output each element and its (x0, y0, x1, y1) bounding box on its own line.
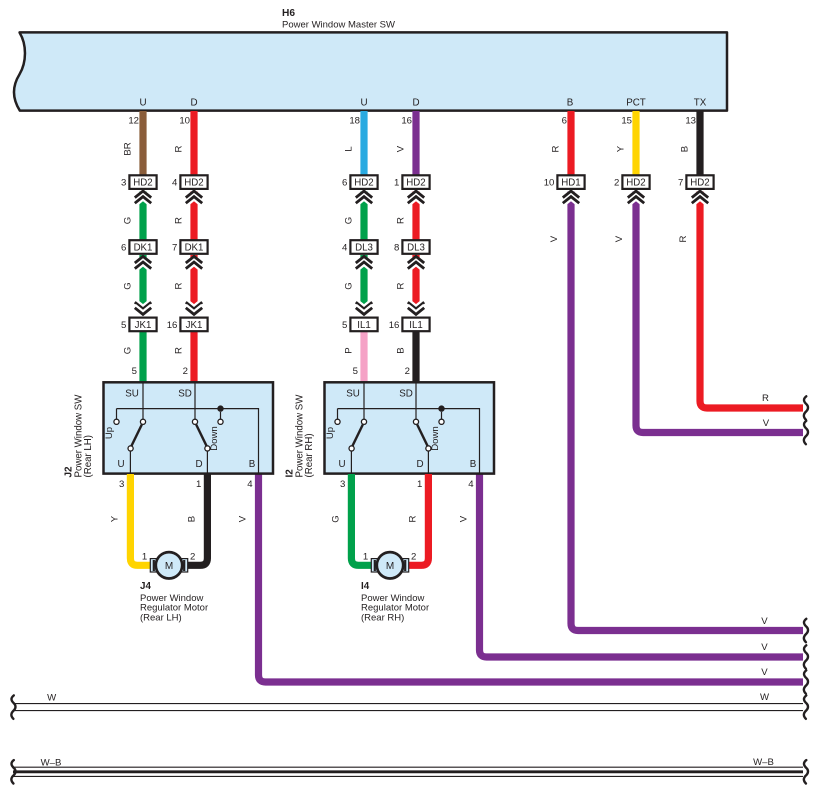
wire B switch D terminal to motor pin 2 (184, 474, 207, 565)
svg-text:D: D (195, 459, 202, 470)
svg-text:I4: I4 (361, 581, 370, 592)
svg-text:4: 4 (247, 479, 253, 490)
wire break symbol (804, 619, 808, 642)
connector mating chevrons (up) (356, 194, 372, 201)
wire break symbol (804, 396, 808, 419)
switch contact (114, 419, 119, 424)
svg-text:U: U (139, 98, 146, 109)
svg-text:SD: SD (178, 389, 192, 400)
wire R connector HD2-1 to DL3-8 (412, 192, 419, 246)
connector HD1 pin 10 (557, 175, 584, 189)
svg-text:2: 2 (190, 552, 195, 563)
svg-text:5: 5 (353, 366, 358, 377)
wire Y from H6 pin 15 to connector HD2 (632, 111, 639, 177)
wire break symbol right (804, 695, 808, 718)
svg-text:P: P (344, 347, 355, 353)
svg-text:DK1: DK1 (134, 243, 153, 254)
svg-text:B: B (396, 347, 407, 353)
svg-text:8: 8 (394, 243, 399, 254)
wire SD lead inside switch (194, 383, 196, 419)
connector mating chevrons (up) (356, 259, 372, 266)
svg-text:HD2: HD2 (184, 178, 203, 189)
svg-text:6: 6 (342, 178, 347, 189)
junction dot on rail (217, 405, 223, 411)
svg-text:Power Window Master SW: Power Window Master SW (282, 19, 395, 30)
switch contact (140, 419, 145, 424)
svg-text:R: R (174, 347, 185, 354)
wire break symbol left (11, 695, 15, 718)
svg-text:B: B (680, 146, 691, 152)
svg-text:G: G (123, 217, 134, 224)
svg-text:R: R (407, 515, 418, 522)
svg-text:V: V (761, 616, 768, 627)
svg-text:HD2: HD2 (626, 178, 645, 189)
svg-text:7: 7 (172, 243, 177, 254)
svg-text:SU: SU (346, 389, 360, 400)
connector HD2 pin 2 (622, 175, 649, 189)
connector mating chevrons (up) (135, 194, 151, 201)
svg-text:JK1: JK1 (135, 320, 152, 331)
wire G between connectors row2 and row3 (139, 255, 146, 313)
power window regulator motor J4 (Rear LH) (150, 559, 157, 572)
svg-text:B: B (567, 98, 574, 109)
svg-text:W–B: W–B (753, 757, 774, 768)
wire R from connector row3 to switch terminal 2 (190, 332, 197, 384)
switch arm Down (196, 425, 206, 446)
svg-text:6: 6 (121, 243, 126, 254)
connector mating chevrons (up) (186, 259, 202, 266)
svg-text:D: D (412, 98, 419, 109)
svg-text:IL1: IL1 (357, 320, 370, 331)
svg-text:J4: J4 (140, 581, 151, 592)
connector HD2 pin 1 (402, 175, 429, 189)
svg-text:16: 16 (389, 320, 400, 331)
switch contact (361, 419, 366, 424)
connector mating chevrons (up) (628, 194, 644, 201)
stub wire to Up contact (337, 409, 339, 420)
switch contact (439, 419, 444, 424)
svg-text:R: R (678, 235, 689, 242)
svg-text:R: R (551, 145, 562, 152)
junction dot on rail (438, 405, 444, 411)
svg-text:B: B (186, 516, 197, 522)
connector JK1 pin 16 (180, 318, 207, 332)
switch pole contact U (128, 446, 133, 451)
wire V from H6 pin 16 to connector HD2 (412, 111, 419, 177)
bus rail wire to terminal B (338, 409, 480, 474)
svg-text:18: 18 (349, 116, 360, 127)
power window master switch H6 (component box) (14, 32, 727, 110)
svg-text:V: V (458, 515, 469, 522)
svg-text:Down: Down (209, 426, 220, 451)
connector IL1 pin 5 (350, 318, 377, 332)
wire W (white) horizontal bus (13, 704, 803, 711)
wire B from H6 pin 13 to connector HD2 (696, 111, 703, 177)
svg-text:V: V (237, 515, 248, 522)
svg-text:7: 7 (678, 178, 683, 189)
svg-text:R: R (174, 282, 185, 289)
wire R from H6 pin 10 to connector HD2 (190, 111, 197, 177)
svg-text:Y: Y (109, 515, 120, 522)
svg-text:3: 3 (121, 178, 126, 189)
svg-text:DK1: DK1 (185, 243, 204, 254)
svg-text:5: 5 (342, 320, 347, 331)
svg-text:16: 16 (401, 116, 412, 127)
wire R from H6 pin 6 to connector HD1 (567, 111, 574, 177)
svg-text:H6: H6 (282, 8, 295, 19)
svg-text:(Rear RH): (Rear RH) (361, 612, 404, 623)
svg-text:V: V (761, 667, 768, 678)
connector DK1 pin 6 (129, 240, 156, 254)
svg-text:1: 1 (394, 178, 399, 189)
wire R connector HD2-4 to DK1-7 (190, 192, 197, 246)
svg-text:1: 1 (363, 552, 368, 563)
wire G between connectors row2 and row3 (360, 255, 367, 313)
switch pole contact D (205, 446, 210, 451)
svg-text:W–B: W–B (41, 758, 62, 769)
svg-text:13: 13 (685, 116, 696, 127)
svg-text:HD2: HD2 (406, 178, 425, 189)
svg-text:G: G (344, 217, 355, 224)
svg-text:HD2: HD2 (690, 178, 709, 189)
svg-text:TX: TX (694, 98, 707, 109)
svg-text:V: V (614, 235, 625, 242)
svg-text:W: W (760, 692, 770, 703)
svg-text:4: 4 (342, 243, 348, 254)
wire pole to terminal U (350, 451, 352, 474)
wire R from connector HD2-7 down and right to break (700, 192, 803, 409)
switch contact (335, 419, 340, 424)
svg-text:2: 2 (405, 366, 410, 377)
svg-text:HD2: HD2 (354, 178, 373, 189)
svg-text:B: B (249, 459, 256, 470)
svg-text:L: L (344, 146, 355, 152)
svg-text:D: D (416, 459, 423, 470)
connector mating chevrons (up) (408, 194, 424, 201)
wire R switch D terminal to motor pin 2 (405, 474, 428, 565)
connector HD2 pin 6 (350, 175, 377, 189)
wire break symbol (804, 670, 808, 693)
connector DL3 pin 8 (402, 240, 429, 254)
wire Y switch U terminal to motor pin 1 (130, 474, 154, 565)
svg-text:5: 5 (132, 366, 137, 377)
svg-text:R: R (396, 282, 407, 289)
svg-text:(Rear LH): (Rear LH) (83, 435, 94, 478)
svg-text:Up: Up (104, 427, 115, 439)
wire V from connector HD2-2 down and right to break (636, 192, 803, 433)
connector HD2 pin 7 (686, 175, 713, 189)
svg-text:SD: SD (399, 389, 413, 400)
connector DK1 pin 7 (180, 240, 207, 254)
switch pole contact D (426, 446, 431, 451)
svg-text:1: 1 (417, 479, 422, 490)
svg-text:Up: Up (325, 427, 336, 439)
power window switch I2 (Rear RH) component box (325, 382, 495, 473)
connector IL1 pin 16 (402, 318, 429, 332)
svg-text:2: 2 (411, 552, 416, 563)
svg-text:PCT: PCT (626, 98, 646, 109)
svg-text:R: R (762, 393, 769, 404)
svg-text:R: R (396, 217, 407, 224)
connector mating chevrons (down) (135, 300, 151, 307)
svg-text:(Rear LH): (Rear LH) (140, 612, 182, 623)
svg-text:3: 3 (340, 479, 345, 490)
svg-text:B: B (470, 459, 477, 470)
power window regulator motor I4 (Rear RH) (371, 559, 378, 572)
svg-text:5: 5 (121, 320, 126, 331)
wire SD lead inside switch (415, 383, 417, 419)
svg-text:M: M (386, 561, 394, 572)
wire break symbol left (11, 760, 15, 783)
switch contact (192, 419, 197, 424)
svg-text:Y: Y (616, 145, 627, 152)
svg-text:BR: BR (123, 142, 134, 155)
connector mating chevrons (up) (408, 259, 424, 266)
switch arm Up (353, 425, 363, 446)
svg-text:G: G (344, 282, 355, 289)
svg-text:15: 15 (621, 116, 632, 127)
svg-text:16: 16 (167, 320, 178, 331)
svg-text:G: G (330, 515, 341, 522)
connector DL3 pin 4 (350, 240, 377, 254)
svg-text:IL1: IL1 (409, 320, 422, 331)
wire R between connectors row2 and row3 (412, 255, 419, 313)
wire G connector HD2-3 to DK1-6 (139, 192, 146, 246)
wire pole to terminal D (206, 451, 208, 474)
svg-text:SU: SU (125, 389, 139, 400)
svg-text:U: U (360, 98, 367, 109)
svg-text:1: 1 (196, 479, 201, 490)
switch contact (218, 419, 223, 424)
svg-text:DL3: DL3 (355, 243, 373, 254)
connector HD2 pin 4 (180, 175, 207, 189)
connector mating chevrons (down) (186, 300, 202, 307)
wire BR from H6 pin 12 to connector HD2 (139, 111, 146, 177)
svg-text:10: 10 (179, 116, 190, 127)
svg-text:DL3: DL3 (407, 243, 425, 254)
svg-text:V: V (763, 418, 770, 429)
svg-text:M: M (165, 561, 173, 572)
svg-text:R: R (174, 145, 185, 152)
svg-text:Down: Down (430, 426, 441, 451)
svg-text:(Rear RH): (Rear RH) (304, 433, 315, 477)
svg-text:U: U (338, 459, 345, 470)
svg-text:3: 3 (119, 479, 124, 490)
wire pole to terminal U (129, 451, 131, 474)
svg-text:W: W (47, 693, 57, 704)
svg-text:HD1: HD1 (561, 178, 580, 189)
switch contact (413, 419, 418, 424)
svg-text:2: 2 (614, 178, 619, 189)
wire R between connectors row2 and row3 (190, 255, 197, 313)
switch pole contact U (349, 446, 354, 451)
svg-text:JK1: JK1 (186, 320, 203, 331)
power window switch J2 (Rear LH) component box (104, 382, 274, 473)
wire G connector HD2-6 to DL3-4 (360, 192, 367, 246)
svg-text:V: V (396, 145, 407, 152)
svg-text:4: 4 (468, 479, 474, 490)
wire G switch U terminal to motor pin 1 (351, 474, 375, 565)
wire V rear RH switch B terminal down and right to break (480, 474, 804, 657)
stub wire to Down contact (220, 412, 222, 419)
connector mating chevrons (up) (186, 194, 202, 201)
connector JK1 pin 5 (129, 318, 156, 332)
connector HD2 pin 3 (129, 175, 156, 189)
svg-text:R: R (174, 217, 185, 224)
wire P from connector row3 to switch terminal 5 (360, 332, 367, 384)
svg-text:HD2: HD2 (133, 178, 152, 189)
connector mating chevrons (up) (692, 194, 708, 201)
connector mating chevrons (up) (563, 194, 579, 201)
wire break symbol (804, 421, 808, 444)
svg-text:10: 10 (544, 178, 555, 189)
stub wire to Up contact (116, 409, 118, 420)
wire SU lead inside switch (142, 383, 144, 419)
wire break symbol (804, 645, 808, 668)
stub wire to Down contact (441, 412, 443, 419)
svg-text:6: 6 (562, 116, 567, 127)
svg-text:2: 2 (183, 366, 188, 377)
wire SU lead inside switch (363, 383, 365, 419)
svg-text:1: 1 (142, 552, 147, 563)
wire break symbol right (804, 760, 808, 783)
wire L from H6 pin 18 to connector HD2 (360, 111, 367, 177)
connector mating chevrons (up) (135, 259, 151, 266)
svg-text:12: 12 (128, 116, 139, 127)
wire V rear LH switch B terminal down and right to break (259, 474, 804, 682)
svg-text:G: G (123, 347, 134, 354)
svg-text:4: 4 (172, 178, 178, 189)
svg-text:G: G (123, 282, 134, 289)
wire B from connector row3 to switch terminal 2 (412, 332, 419, 384)
switch arm Down (417, 425, 427, 446)
wire V from connector HD1-10 down and right to break (571, 192, 803, 631)
svg-text:V: V (549, 235, 560, 242)
switch arm Up (132, 425, 142, 446)
svg-text:D: D (190, 98, 197, 109)
svg-text:U: U (117, 459, 124, 470)
connector mating chevrons (down) (356, 300, 372, 307)
bus rail wire to terminal B (117, 409, 259, 474)
wire pole to terminal D (427, 451, 429, 474)
wire G from connector row3 to switch terminal 5 (139, 332, 146, 384)
connector mating chevrons (down) (408, 300, 424, 307)
svg-text:V: V (761, 642, 768, 653)
wire W-B (white-black) horizontal bus (13, 767, 803, 776)
